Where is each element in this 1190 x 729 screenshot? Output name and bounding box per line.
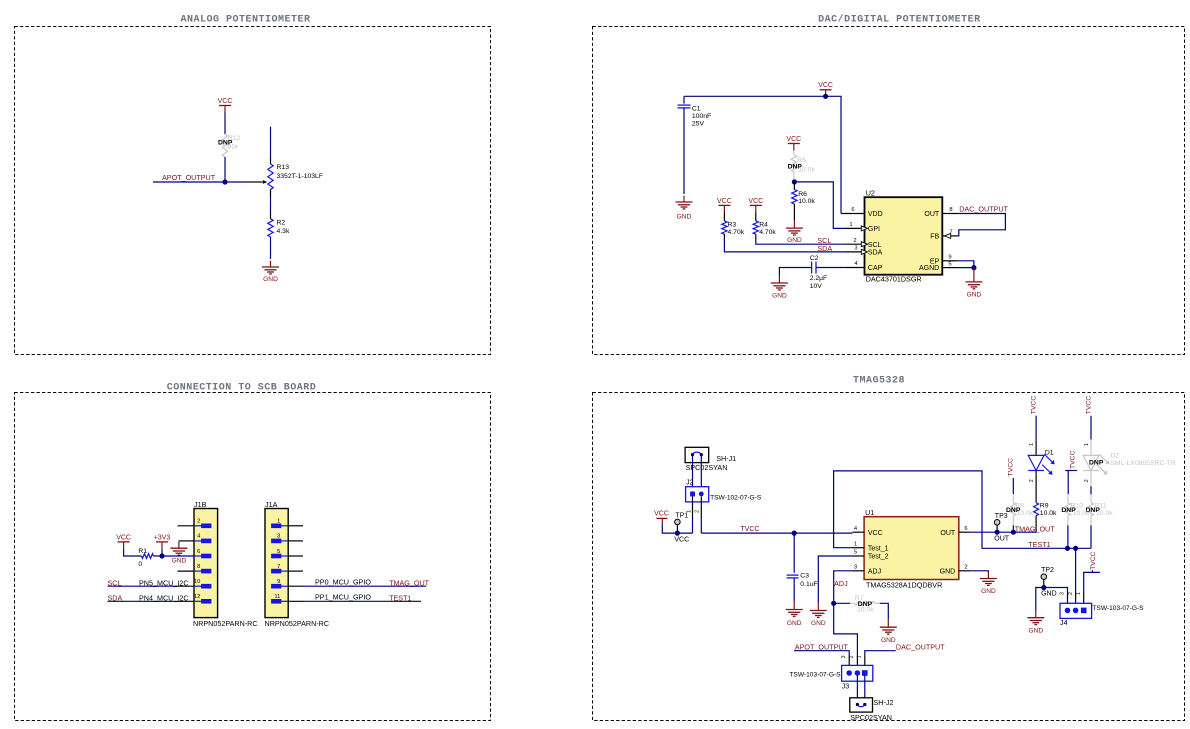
wire pin7 stub <box>288 570 303 572</box>
svg-text:GND: GND <box>787 620 802 627</box>
junction TVCC/C3 <box>792 531 797 536</box>
pin lead D2 anode (DNP) <box>1090 440 1092 456</box>
connector J1B body <box>194 509 218 618</box>
connector J1A pin 9 <box>281 585 288 587</box>
wire DAC_OUTPUT to J3 pin1 <box>865 651 896 656</box>
svg-text:VCC: VCC <box>818 82 833 89</box>
wire ADJ node to J3 pin2 <box>834 603 858 656</box>
svg-text:3: 3 <box>277 534 280 540</box>
svg-text:GND: GND <box>677 213 692 220</box>
connector J1A pin 3 <box>281 540 288 542</box>
svg-text:J1A: J1A <box>265 500 278 509</box>
svg-text:+3V3: +3V3 <box>154 534 171 541</box>
pad J2 pin2 <box>699 492 704 497</box>
svg-text:DAC/DIGITAL POTENTIOMETER: DAC/DIGITAL POTENTIOMETER <box>818 14 981 26</box>
svg-text:TEST1: TEST1 <box>389 594 411 603</box>
wire C3 to GND <box>793 578 795 602</box>
pin 7 FB <box>942 235 957 237</box>
wire pin3 stub <box>288 540 303 542</box>
svg-text:ADJ: ADJ <box>868 568 881 575</box>
resistor R10 (DNP) <box>1067 494 1069 503</box>
svg-text:GND: GND <box>787 237 802 244</box>
wire pin9 TMAG_OUT <box>288 585 304 587</box>
svg-text:SPC02SYAN: SPC02SYAN <box>850 713 892 722</box>
pin lead R9 to OUT net <box>1035 516 1037 533</box>
pin 4 CAP <box>847 267 865 269</box>
svg-text:GND: GND <box>1041 591 1057 598</box>
svg-text:C2: C2 <box>810 255 819 262</box>
svg-text:Test_1: Test_1 <box>868 545 889 552</box>
svg-text:DNP: DNP <box>788 163 803 170</box>
wire R7 to GND <box>880 603 889 619</box>
junction TEST1/J4 <box>1073 546 1078 551</box>
junction VCC rail <box>823 94 828 99</box>
junction ADJ <box>831 601 836 606</box>
header J4 body <box>1060 603 1092 618</box>
svg-text:DNP: DNP <box>858 601 873 608</box>
wire TP2 node to J4 pin3 <box>1044 588 1068 595</box>
panel frame: DAC/DIGITAL POTENTIOMETER <box>593 27 1185 355</box>
pin 6 OUT (U1) <box>959 531 971 533</box>
wire node to pin6 <box>162 555 194 557</box>
svg-text:TEST1: TEST1 <box>1028 540 1050 549</box>
pin lead D2 cathode to R11 <box>1090 471 1092 487</box>
svg-text:GND: GND <box>1028 627 1043 634</box>
panel frame: ANALOG POTENTIOMETER <box>15 27 491 355</box>
svg-text:GND: GND <box>172 557 187 564</box>
svg-text:SH-J2: SH-J2 <box>874 698 894 707</box>
svg-text:6: 6 <box>964 526 967 532</box>
pin 2 GND (U1) <box>959 570 971 572</box>
svg-text:9: 9 <box>277 579 280 585</box>
svg-text:TVCC: TVCC <box>1008 458 1015 477</box>
svg-text:10.0k: 10.0k <box>798 198 815 205</box>
svg-text:1: 1 <box>854 541 857 547</box>
wire TVCC to R10 <box>1067 471 1069 495</box>
svg-text:DAC43701DSGR: DAC43701DSGR <box>866 275 922 284</box>
svg-text:SDA: SDA <box>868 250 883 257</box>
svg-text:GND: GND <box>263 276 278 283</box>
junction node APOT_OUTPUT <box>222 179 227 184</box>
wire R10 to TEST1 net <box>1067 525 1069 548</box>
pin 1 Test_1 <box>853 547 865 549</box>
svg-text:GND: GND <box>881 637 896 644</box>
svg-text:APOT_OUTPUT: APOT_OUTPUT <box>162 173 216 182</box>
svg-text:TMAG5328A1DQDBVR: TMAG5328A1DQDBVR <box>866 581 942 590</box>
svg-text:TSW-103-07-G-S: TSW-103-07-G-S <box>789 672 841 679</box>
svg-text:CAP: CAP <box>868 265 883 272</box>
svg-text:GND: GND <box>967 291 982 298</box>
svg-text:SH-J1: SH-J1 <box>716 454 736 463</box>
pin 9 EP <box>942 260 957 262</box>
resistor R6 <box>793 182 795 190</box>
panel frame: TMAG5328 <box>593 393 1185 721</box>
wire pin8 stub <box>178 570 195 572</box>
svg-text:OUT: OUT <box>940 530 956 537</box>
svg-text:DNP: DNP <box>1089 460 1104 467</box>
svg-text:ANALOG POTENTIOMETER: ANALOG POTENTIOMETER <box>180 15 310 26</box>
svg-text:J2: J2 <box>686 478 694 487</box>
svg-text:3: 3 <box>854 565 857 571</box>
wire ADJ pin to node <box>834 571 853 604</box>
pin lead D1 anode <box>1035 441 1037 456</box>
ground GND (P1) <box>270 261 272 267</box>
svg-text:SDA: SDA <box>817 244 832 253</box>
connector J1B pin 2 <box>194 525 201 527</box>
svg-text:NRPN052PARN-RC: NRPN052PARN-RC <box>193 619 258 628</box>
connector J1A body <box>265 509 288 618</box>
svg-text:2: 2 <box>1084 479 1090 482</box>
pad J3 pin1 <box>862 670 868 676</box>
wire J2 pin2 to TVCC rail <box>700 496 702 518</box>
header J3 body <box>842 665 873 681</box>
wire VCC to R1 <box>124 549 137 556</box>
svg-text:R9: R9 <box>1040 503 1049 510</box>
svg-text:10: 10 <box>194 579 200 585</box>
connector J1A pin 5 <box>281 555 288 557</box>
junction R8/OUT <box>1011 530 1016 535</box>
pad J4 pin2 <box>1073 608 1079 614</box>
pin 8 OUT <box>942 213 957 215</box>
pin 5 AGND <box>942 267 957 269</box>
svg-text:R2: R2 <box>277 220 286 227</box>
svg-text:SCL: SCL <box>868 242 882 249</box>
svg-text:5: 5 <box>854 550 857 556</box>
svg-text:SML-LX0805SRC-TR: SML-LX0805SRC-TR <box>1110 460 1175 467</box>
wire U1 GND pin to ground <box>970 571 988 572</box>
resistor R2 <box>268 219 273 237</box>
wire pin2 stub <box>178 525 195 527</box>
svg-text:11: 11 <box>274 594 280 600</box>
svg-text:U2: U2 <box>866 188 875 197</box>
resistor R9 <box>1034 503 1039 516</box>
resistor R11 (DNP) <box>1089 503 1094 516</box>
wire node to GPI pin <box>794 182 845 229</box>
wire R6 to GND <box>793 204 795 220</box>
wire VCC to R12 <box>224 113 226 135</box>
svg-text:1: 1 <box>849 222 852 228</box>
capacitor C3 <box>787 574 799 576</box>
svg-text:100nF: 100nF <box>692 113 711 120</box>
wire TVCC to D2 <box>1090 416 1092 440</box>
pin 2 SCL <box>845 243 865 245</box>
wire J3 pin2 to SH-J2 pin1 <box>856 676 858 705</box>
resistor R12 (DNP) <box>222 134 227 157</box>
svg-text:5: 5 <box>948 262 951 268</box>
svg-text:Test_2: Test_2 <box>868 554 889 561</box>
wire APOT_OUTPUT to J3 pin3 <box>794 651 849 656</box>
svg-text:TVCC: TVCC <box>1031 396 1038 415</box>
svg-text:TMAG_OUT: TMAG_OUT <box>1015 524 1056 533</box>
wire pin1 stub <box>288 525 303 527</box>
svg-text:TMAG5328: TMAG5328 <box>853 376 905 387</box>
svg-text:3352T-1-103LF: 3352T-1-103LF <box>277 173 323 180</box>
svg-text:VCC: VCC <box>717 198 732 205</box>
wire VCC to TP1 node <box>662 524 692 533</box>
svg-text:J3: J3 <box>842 682 850 691</box>
wire TEST1 to J4 pin2 <box>1075 548 1077 594</box>
ground GND J1B pin4 <box>178 541 180 548</box>
svg-text:TVCC: TVCC <box>1085 396 1092 415</box>
svg-text:10.0k: 10.0k <box>1040 510 1057 517</box>
ground GND TP2 <box>1035 611 1037 618</box>
ground GND AGND <box>973 268 975 282</box>
wire C2 to GND <box>779 268 811 276</box>
svg-text:2: 2 <box>1068 592 1074 595</box>
svg-text:U1: U1 <box>865 508 874 517</box>
wire TVCC to D1 <box>1035 416 1037 441</box>
junction TP3 <box>995 530 1000 535</box>
svg-text:3: 3 <box>854 246 857 252</box>
wire TEST1 to R11 corner <box>1068 547 1092 549</box>
junction R5/R6/GPI <box>792 179 797 184</box>
svg-text:J1B: J1B <box>194 500 207 509</box>
pin 4 VCC (U1) <box>853 531 865 533</box>
svg-text:R3: R3 <box>728 221 737 228</box>
wire R13 top <box>270 127 272 158</box>
svg-text:PP1_MCU_GPIO: PP1_MCU_GPIO <box>315 593 371 602</box>
ground GND Test_2 <box>817 603 819 611</box>
wire J3 pin1 to SH-J2 pin2 <box>864 676 866 705</box>
svg-text:R1: R1 <box>138 548 147 555</box>
wire VCC rail top <box>684 96 841 213</box>
svg-text:7: 7 <box>277 564 280 570</box>
svg-text:1: 1 <box>277 519 280 525</box>
wire R4 to SCL net <box>755 234 757 239</box>
svg-text:TP2: TP2 <box>1041 567 1054 574</box>
svg-text:9: 9 <box>948 255 951 261</box>
svg-text:FB: FB <box>930 234 939 241</box>
svg-text:2: 2 <box>1029 479 1035 482</box>
svg-text:VCC: VCC <box>868 530 883 537</box>
svg-text:PN5_MCU_I2C: PN5_MCU_I2C <box>139 578 189 587</box>
wire node to wiper <box>225 181 248 183</box>
svg-text:DNP: DNP <box>1006 507 1021 514</box>
svg-text:2: 2 <box>695 510 701 513</box>
svg-text:PN4_MCU_I2C: PN4_MCU_I2C <box>139 594 189 603</box>
pin 6 VDD <box>841 213 865 215</box>
pad J3 pin3 <box>846 670 852 676</box>
svg-text:GND: GND <box>772 292 787 299</box>
svg-text:TVCC: TVCC <box>740 526 759 533</box>
pin 3 SDA <box>845 251 865 253</box>
pin 3 ADJ <box>853 570 865 572</box>
wire pin4 to GND <box>179 540 194 542</box>
wire Test_2 to GND <box>818 556 852 603</box>
svg-text:VCC: VCC <box>786 136 801 143</box>
wire EP/AGND to GND <box>957 261 974 268</box>
svg-text:0: 0 <box>138 561 142 568</box>
resistor R7 (DNP) <box>834 602 851 604</box>
svg-text:VCC: VCC <box>654 511 669 518</box>
wire CAP pin to C2 <box>816 267 847 269</box>
svg-text:25V: 25V <box>692 120 705 127</box>
wire R3 to SDA net <box>723 234 725 239</box>
svg-text:6: 6 <box>197 549 200 555</box>
wire TVCC to R8 <box>1012 478 1014 494</box>
wire U1 OUT to R9 node <box>970 531 1036 533</box>
svg-text:10V: 10V <box>810 283 823 290</box>
connector J1A pin 7 <box>281 570 288 572</box>
svg-text:4.70k: 4.70k <box>759 229 776 236</box>
ground GND U1 <box>987 572 989 579</box>
LED D2 (DNP) <box>1083 455 1099 470</box>
LED D1 <box>1028 455 1044 470</box>
svg-text:VCC: VCC <box>674 536 689 543</box>
svg-text:PP0_MCU_GPIO: PP0_MCU_GPIO <box>315 577 371 586</box>
svg-text:2: 2 <box>197 519 200 525</box>
wire TVCC to J4 pin1 <box>1084 572 1100 594</box>
wire R12 to node <box>224 157 226 182</box>
wire SDA to pin12 <box>108 600 178 602</box>
junction TEST1/R10 <box>1065 546 1070 551</box>
wire TVCC rail to U1 VCC <box>701 532 852 534</box>
svg-text:C3: C3 <box>800 572 809 579</box>
jumper SH-J2 body <box>850 698 873 712</box>
svg-text:4.70k: 4.70k <box>728 229 745 236</box>
svg-text:5: 5 <box>277 549 280 555</box>
connector J1A pin 11 <box>281 600 288 602</box>
svg-text:R13: R13 <box>277 164 290 171</box>
svg-text:2: 2 <box>964 565 967 571</box>
svg-text:GPI: GPI <box>868 226 880 233</box>
svg-text:2: 2 <box>853 238 856 244</box>
wire SH-J1 pin1 to J2 pin1 <box>692 455 694 492</box>
IC U2 DAC43701DSGR body <box>865 197 943 275</box>
svg-text:3: 3 <box>841 655 847 658</box>
svg-text:D1: D1 <box>1045 450 1054 457</box>
jumper SH-J1 body <box>685 447 709 462</box>
wire R11 to TEST1 net <box>1090 525 1092 548</box>
svg-text:TSW-103-07-G-S: TSW-103-07-G-S <box>1092 605 1144 612</box>
svg-text:4.3k: 4.3k <box>277 228 290 235</box>
connector J1B pin 6 <box>194 555 201 557</box>
svg-text:OUT: OUT <box>924 211 940 218</box>
svg-text:GND: GND <box>981 588 996 595</box>
wire pin5 stub <box>288 555 303 557</box>
potentiometer R13 body <box>268 164 273 190</box>
junction AGND <box>971 265 976 270</box>
wire SCL to pin10 <box>108 585 178 587</box>
svg-text:TP1: TP1 <box>675 512 688 519</box>
svg-text:12: 12 <box>194 594 200 600</box>
wire R2 to GND <box>270 237 272 259</box>
resistor R4 <box>755 212 757 221</box>
junction TP2 <box>1041 585 1046 590</box>
wire TVCC to C3 <box>793 533 795 573</box>
wire APOT_OUTPUT <box>153 181 225 183</box>
IC U1 TMAG5328A1DQDBVR body <box>864 517 959 580</box>
wire TP2 to GND <box>1036 588 1044 611</box>
svg-text:4: 4 <box>854 261 858 267</box>
svg-text:OUT: OUT <box>994 536 1010 543</box>
capacitor C1 <box>678 104 691 106</box>
svg-text:DAC_OUTPUT: DAC_OUTPUT <box>959 205 1008 214</box>
resistor R8 (DNP) <box>1012 494 1014 503</box>
svg-text:6: 6 <box>851 207 854 213</box>
pad J4 pin1 <box>1081 608 1087 614</box>
svg-text:DAC_OUTPUT: DAC_OUTPUT <box>896 643 945 652</box>
wire J2 pin1 to VCC rail <box>692 496 694 518</box>
svg-text:1: 1 <box>1084 443 1090 446</box>
pin 5 Test_2 <box>853 555 865 557</box>
svg-text:2: 2 <box>849 655 855 658</box>
ground GND C3 <box>793 602 795 610</box>
junction +3V3 node <box>159 553 164 558</box>
wire OUT to FB <box>957 214 1005 236</box>
svg-text:VCC: VCC <box>218 98 233 105</box>
wire R1 to node <box>158 555 162 557</box>
svg-text:3: 3 <box>1060 592 1066 595</box>
svg-text:1: 1 <box>856 655 862 658</box>
svg-text:TVCC: TVCC <box>1069 450 1076 469</box>
pin 1 GPI <box>845 227 865 229</box>
wire Test_1 loop to TEST1 <box>834 471 1068 548</box>
connector J1B pin 4 <box>194 540 201 542</box>
svg-text:R4: R4 <box>759 221 768 228</box>
svg-text:NRPN052PARN-RC: NRPN052PARN-RC <box>265 619 330 628</box>
svg-text:VCC: VCC <box>748 198 763 205</box>
svg-text:SPC02SYAN: SPC02SYAN <box>686 463 728 472</box>
junction TP1 <box>675 531 680 536</box>
connector J1B pin 12 <box>194 600 201 602</box>
wire C1 top <box>683 96 685 103</box>
svg-text:CONNECTION TO SCB BOARD: CONNECTION TO SCB BOARD <box>167 383 317 394</box>
svg-text:AGND: AGND <box>919 265 939 272</box>
svg-text:8: 8 <box>949 207 952 213</box>
wire pin11 TEST1 <box>288 600 304 602</box>
svg-text:TSW-102-07-G-S: TSW-102-07-G-S <box>710 494 762 501</box>
wire R8 to OUT net <box>1012 525 1014 532</box>
panel frame: CONNECTION TO SCB BOARD <box>15 393 491 721</box>
svg-text:GND: GND <box>811 620 826 627</box>
svg-text:J4: J4 <box>1060 618 1068 627</box>
connector J1A pin 1 <box>281 525 288 527</box>
resistor R1 <box>137 555 142 557</box>
svg-text:4: 4 <box>854 526 858 532</box>
svg-text:0.1uF: 0.1uF <box>800 581 817 588</box>
resistor R3 <box>723 212 725 221</box>
svg-text:TMAG_OUT: TMAG_OUT <box>389 579 430 588</box>
pin lead R13 bottom / wire to R2 <box>270 190 272 198</box>
svg-text:GND: GND <box>940 568 956 575</box>
svg-text:TVCC: TVCC <box>1090 551 1097 570</box>
ground GND R7 <box>887 619 889 627</box>
svg-text:ADJ: ADJ <box>834 579 848 588</box>
pad J2 pin1 <box>690 492 695 497</box>
svg-text:D2: D2 <box>1110 453 1119 460</box>
pin lead R13 top <box>270 158 272 164</box>
header J2 body <box>686 487 709 502</box>
svg-text:2.2µF: 2.2µF <box>810 275 828 282</box>
svg-text:C1: C1 <box>692 105 701 112</box>
svg-text:1: 1 <box>1076 592 1082 595</box>
ground GND R6 <box>793 220 795 228</box>
potentiometer R13 wiper arrow <box>248 181 263 183</box>
pin lead D1 cathode to R9 <box>1035 471 1037 503</box>
svg-text:DNP: DNP <box>1061 507 1076 514</box>
svg-text:VCC: VCC <box>116 534 131 541</box>
pad J4 pin3 <box>1065 608 1071 614</box>
pad J3 pin2 <box>855 670 861 676</box>
wire SH-J1 pin2 to J2 pin2 <box>700 455 702 492</box>
svg-text:DNP: DNP <box>218 140 233 147</box>
svg-text:8: 8 <box>197 564 200 570</box>
connector J1B pin 8 <box>194 570 201 572</box>
wire C1 to GND <box>683 108 685 194</box>
ground GND C2 <box>778 275 780 283</box>
connector J1B pin 10 <box>194 585 201 587</box>
